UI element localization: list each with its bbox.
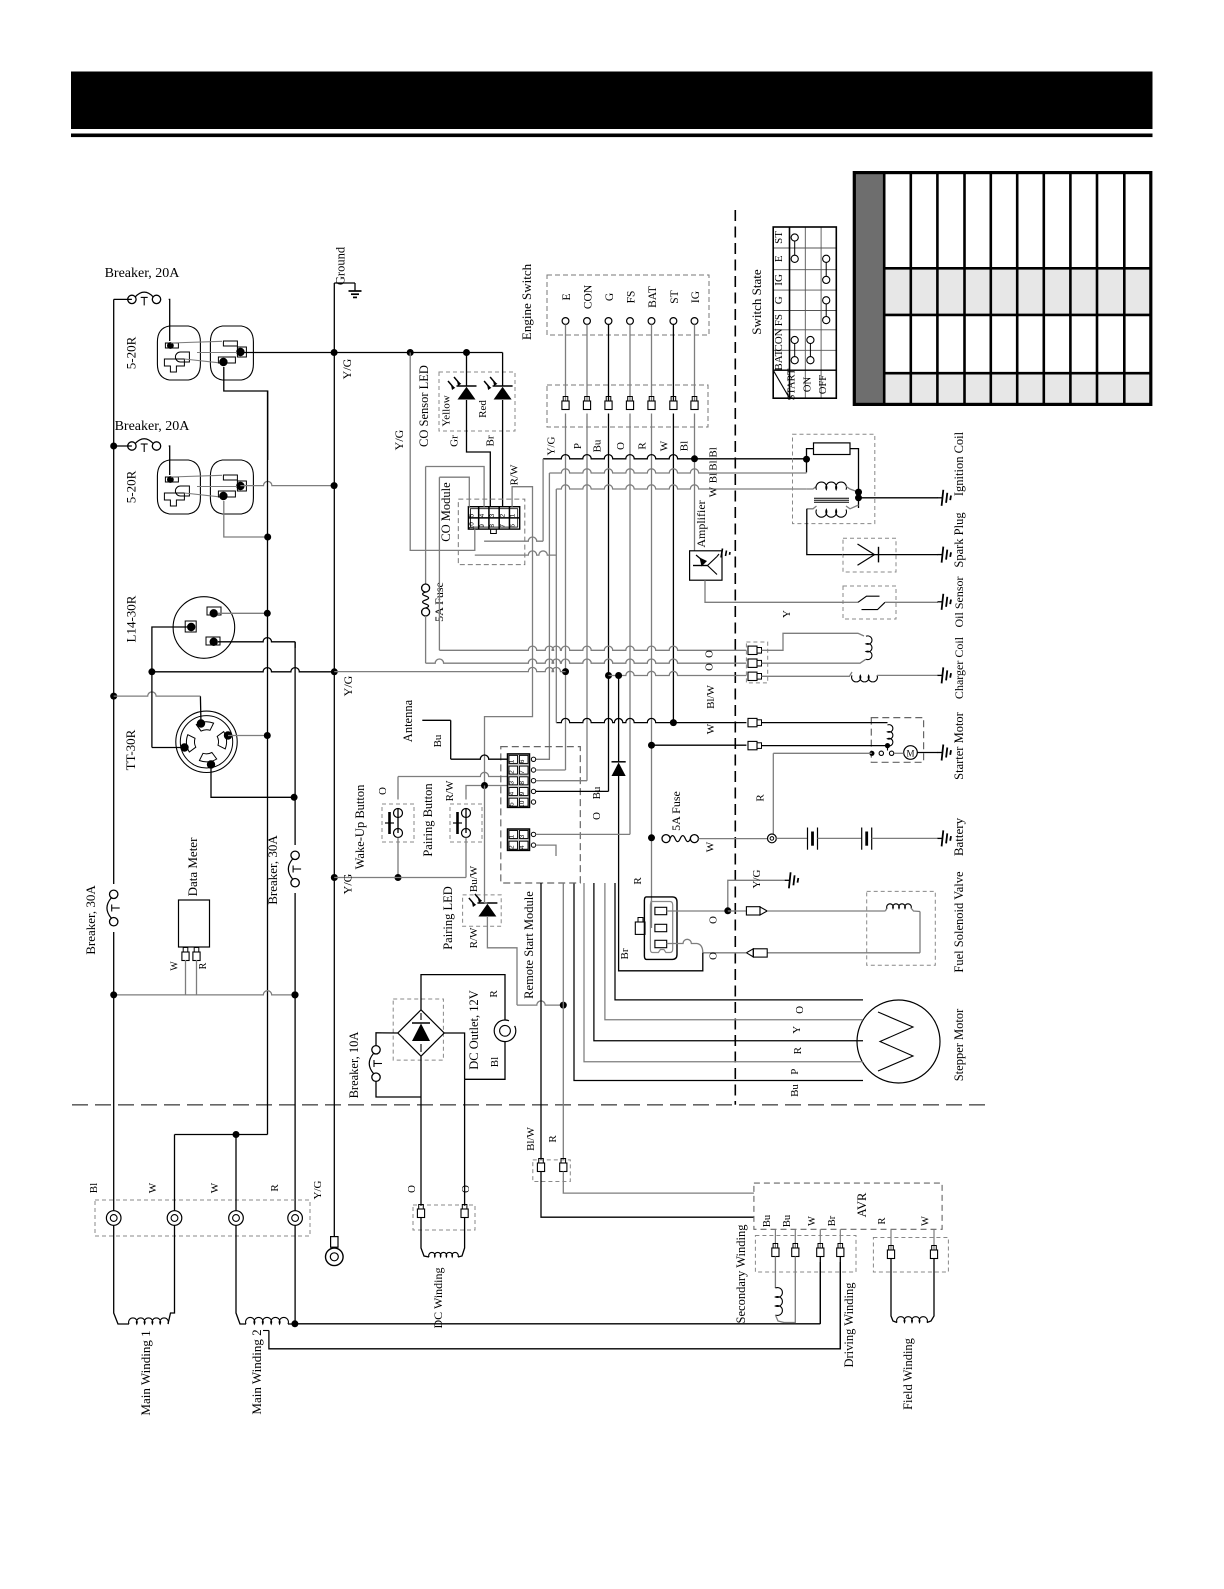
svg-text:5A Fuse: 5A Fuse (669, 791, 683, 831)
remote module connector 2 (508, 829, 530, 850)
wire W terminal2 up (235, 1135, 237, 1212)
receptacle TT-30R (123, 711, 237, 772)
wire rectifier right to DC winding (444, 1033, 464, 1206)
label W starter (705, 723, 717, 734)
wire TT hot to bus (228, 732, 271, 739)
label Switch State (749, 269, 764, 335)
starter relay contacts (869, 746, 893, 756)
label R avr (877, 1217, 888, 1224)
dashed boundary vertical (734, 210, 736, 1105)
svg-text:Amplifier: Amplifier (694, 500, 708, 547)
label Pairing LED (441, 886, 455, 950)
label Y/G ring (312, 1180, 324, 1199)
label P stepper (789, 1069, 801, 1075)
label R battery (755, 794, 767, 802)
svg-text:Bu/W: Bu/W (468, 865, 480, 892)
wire W vertical (672, 414, 674, 723)
label DC Winding (431, 1268, 445, 1329)
wire breaker to rectifier (376, 1033, 398, 1046)
junction R bus at data meter line (292, 991, 299, 998)
svg-text:Bu: Bu (591, 786, 603, 799)
svg-text:W: W (807, 1216, 818, 1226)
breaker CB4 30A (288, 845, 304, 893)
svg-text:Main Winding 1: Main Winding 1 (138, 1330, 153, 1415)
charger connector dashed box (746, 642, 767, 683)
svg-text:5: 5 (469, 513, 476, 517)
wire Br loop (619, 925, 703, 971)
ground (spark plug) (938, 547, 952, 563)
wire battery R to starter relay (773, 753, 872, 834)
rectifier dashed box (393, 999, 443, 1060)
wire O vertical (629, 414, 631, 835)
svg-text:Red: Red (477, 400, 489, 418)
label Bu antenna (432, 734, 444, 747)
wire Y/G to module (536, 769, 566, 771)
wire 5-20R#1 ground to rail (240, 352, 334, 354)
svg-text:Bl: Bl (708, 473, 720, 483)
svg-text:ST: ST (773, 231, 785, 244)
wire Y/G engine ground (728, 880, 786, 911)
svg-text:Driving Winding: Driving Winding (842, 1282, 856, 1368)
ignition core (814, 498, 849, 502)
svg-text:AVR: AVR (855, 1192, 869, 1217)
wire left rail Bl (113, 299, 115, 1211)
wire TT neutral up-left to rail (114, 692, 201, 724)
label W terminal 2 (209, 1182, 221, 1193)
field winding connector box (873, 1238, 948, 1273)
svg-text:O: O (794, 1006, 806, 1014)
module bottom connector pins (537, 1159, 567, 1172)
svg-text:Y/G: Y/G (312, 1180, 324, 1199)
engine switch connector dashed box (547, 385, 708, 427)
wire 5-20R#2 internal links (171, 475, 237, 496)
svg-text:W: W (170, 961, 181, 971)
svg-text:Main Winding 2: Main Winding 2 (249, 1329, 264, 1414)
receptacle 5-20R #1 (duplex) (124, 326, 254, 380)
svg-text:O: O (460, 1185, 472, 1193)
ground (oil sensor) (938, 594, 952, 610)
svg-text:R/W: R/W (444, 780, 456, 801)
battery cell 2 (862, 828, 872, 850)
LED red (CO) (477, 353, 513, 418)
wire MW2 to AVR W pin (295, 1262, 820, 1324)
output terminals Bl W W R (106, 1211, 302, 1226)
wire R/W from CO module (485, 487, 533, 786)
wire secondary Br down (839, 1257, 841, 1349)
label Gr (449, 435, 461, 447)
remote start module dashed box (501, 747, 581, 883)
header underline (71, 134, 1153, 138)
svg-text:Battery: Battery (951, 817, 966, 856)
svg-text:10: 10 (519, 800, 526, 808)
label Engine Switch (519, 263, 534, 340)
wire CO loop 3 (439, 477, 469, 650)
svg-text:2: 2 (499, 513, 506, 517)
svg-text:4: 4 (479, 513, 486, 517)
svg-text:7: 7 (519, 770, 526, 774)
wire wake-up bottom (395, 809, 402, 882)
wires stepper motor bundle (574, 883, 863, 1081)
label W avr (921, 1216, 932, 1226)
svg-text:Bl Bl: Bl Bl (708, 447, 720, 471)
label Antenna (401, 699, 415, 742)
svg-text:R: R (792, 1046, 804, 1054)
wire Bl/W module down (540, 883, 542, 1160)
svg-text:Bu: Bu (762, 1214, 773, 1227)
wire Y/G ground link line (334, 667, 565, 671)
wire Bl/W line to starter (652, 744, 747, 746)
receptacle 5-20R #2 (duplex) (124, 460, 254, 514)
label AVR (855, 1192, 869, 1217)
ignition primary coil (807, 482, 859, 492)
label 5A Fuse (CO) (432, 582, 446, 622)
spark plug symbol (843, 544, 938, 565)
wire W line to starter (556, 718, 746, 722)
fuel solenoid coil (885, 904, 920, 953)
module conn2 pins (531, 832, 535, 847)
wire rectifier bottom / breaker bottom (376, 1056, 421, 1206)
svg-text:W: W (705, 841, 717, 852)
label O charger2 (704, 663, 716, 671)
wire Y/G (engine sw) vertical (565, 414, 567, 771)
label W avr (807, 1216, 818, 1226)
svg-text:L14-30R: L14-30R (124, 595, 139, 642)
wire amplifier emitter to ground (717, 549, 730, 558)
svg-text:Bu: Bu (432, 734, 444, 747)
label Bu/W (468, 865, 480, 892)
svg-text:Y: Y (791, 1026, 803, 1034)
svg-text:W: W (921, 1216, 932, 1226)
svg-text:Data Meter: Data Meter (185, 837, 200, 897)
wire L14 hot1 to bus (218, 610, 271, 617)
ground (charger coil) (938, 667, 952, 683)
LED yellow (CO) (441, 353, 477, 427)
svg-text:Remote Start Module: Remote Start Module (522, 891, 536, 999)
svg-text:BAT: BAT (647, 286, 659, 308)
wake-up button (382, 804, 414, 842)
label W terminal 1 (147, 1182, 159, 1193)
svg-text:Br: Br (485, 435, 497, 446)
svg-text:7: 7 (499, 524, 506, 528)
wire battery middle (818, 837, 862, 839)
label R/W pairing (444, 780, 456, 801)
field winding pins (887, 1229, 937, 1258)
breaker CB3 30A (106, 884, 122, 932)
ignition coil dashed box (793, 434, 875, 523)
label Starter Motor (952, 711, 966, 780)
starter pins (748, 718, 762, 749)
label Bl Bl (708, 447, 720, 471)
diode (remote module) (612, 676, 626, 926)
junction R at Bl/W starter line (648, 742, 655, 749)
svg-text:E: E (773, 255, 785, 262)
wire pairing top (466, 782, 508, 800)
svg-text:Yellow: Yellow (441, 395, 453, 426)
charger pins (748, 646, 762, 680)
svg-text:4: 4 (509, 791, 516, 795)
engine switch connector pins (562, 324, 698, 409)
secondary winding pins (772, 1229, 844, 1256)
junction on W bus (264, 534, 271, 541)
svg-text:5-20R: 5-20R (124, 336, 139, 369)
svg-text:8: 8 (489, 524, 496, 528)
junction L14 neutral (148, 668, 155, 675)
label R fuel (632, 877, 644, 885)
junction 5-20R#2 gnd (331, 482, 338, 489)
wire ignition to ground (859, 497, 939, 499)
wire Bl-Bl line to ignition coil (543, 455, 806, 459)
label Main Winding 1 (138, 1330, 153, 1415)
wire W line to ignition primary (556, 485, 807, 489)
DC outlet jack (494, 1020, 516, 1042)
wire amplifier output to oil sensor (705, 580, 843, 602)
amplifier box (690, 551, 722, 580)
svg-text:O: O (406, 1185, 418, 1193)
junction R at 5A fuse (648, 834, 655, 841)
svg-text:R/W: R/W (468, 927, 480, 948)
wire top Y/G to LEDs (334, 352, 502, 354)
svg-text:3: 3 (519, 834, 526, 838)
wire terminal to battery (776, 837, 807, 839)
wire Y/G rail (331, 283, 338, 1237)
svg-text:10: 10 (469, 522, 476, 530)
engine switch state table (773, 227, 837, 400)
ring terminal Y/G (326, 1237, 344, 1266)
label Ignition Coil (952, 431, 966, 496)
wire CO loop 2 with 5A fuse (422, 467, 485, 664)
label Breaker, 20A (second) (115, 419, 191, 434)
label Bl/W bottom (525, 1126, 537, 1150)
wire module conn2 row2 stub (536, 845, 556, 856)
wire W bus link (175, 1131, 268, 1138)
wire Bl vertical (to amplifier) (694, 414, 696, 551)
junction 5-20R#1 gnd (331, 349, 338, 356)
label Main Winding 2 (249, 1329, 264, 1414)
svg-text:R: R (877, 1217, 888, 1224)
svg-text:Y: Y (781, 610, 793, 618)
CO sensor LED dashed box (439, 372, 515, 431)
breaker CB2 20A (114, 439, 170, 475)
svg-text:3: 3 (509, 781, 516, 785)
svg-text:R: R (637, 442, 649, 450)
data meter box (179, 900, 210, 947)
label Pairing Button (421, 783, 435, 857)
svg-text:Wake-Up Button: Wake-Up Button (353, 784, 367, 869)
svg-text:Bl/W: Bl/W (705, 684, 717, 708)
svg-text:Bl: Bl (489, 1057, 501, 1067)
svg-text:Fuel Solenoid Valve: Fuel Solenoid Valve (952, 871, 966, 973)
wire R module down (562, 883, 564, 1160)
svg-text:Engine Switch: Engine Switch (519, 263, 534, 340)
svg-text:Spark Plug: Spark Plug (952, 512, 966, 568)
wire charger line 1 (439, 646, 746, 650)
label O fuel mid (708, 916, 720, 924)
TT-30R pin slots (180, 719, 232, 768)
starter motor M (894, 746, 938, 760)
junction Bl at BlBl line (691, 455, 698, 462)
label CO Module (439, 482, 453, 542)
svg-text:Y/G: Y/G (751, 869, 763, 888)
label O wake-up (377, 787, 389, 795)
svg-text:Y/G: Y/G (341, 873, 355, 894)
pairing LED dashed box (463, 895, 502, 926)
svg-text:CON: CON (583, 284, 595, 309)
remote module connector 1 (508, 754, 530, 808)
CO module dashed box (458, 499, 525, 564)
svg-text:2: 2 (509, 770, 516, 774)
label Bu diode (591, 786, 603, 799)
svg-text:Br: Br (619, 948, 631, 959)
svg-text:Y/G: Y/G (392, 429, 406, 450)
main winding 2 (236, 1225, 295, 1324)
svg-text:R: R (198, 962, 209, 969)
terminal block dashed box (95, 1200, 310, 1236)
svg-text:ST: ST (669, 290, 681, 303)
svg-text:FS: FS (773, 314, 785, 326)
label Y/G engine (751, 869, 763, 888)
wire R to AVR (563, 1172, 754, 1194)
wire data meter W down (185, 960, 187, 995)
wire starter Bl/W in (762, 745, 888, 747)
svg-text:Field Winding: Field Winding (901, 1337, 915, 1410)
label Breaker, 10A (347, 1032, 361, 1099)
CO module connector block (468, 507, 519, 534)
svg-text:Y/G: Y/G (341, 675, 355, 696)
svg-text:4: 4 (519, 845, 526, 849)
label Y stepper (791, 1026, 803, 1034)
svg-text:8: 8 (519, 781, 526, 785)
wire L2 gray to module conn (536, 473, 550, 759)
label Wake-Up Button (353, 784, 367, 869)
data meter pins W R (170, 948, 210, 971)
svg-text:Breaker, 20A: Breaker, 20A (105, 266, 181, 281)
DC winding (421, 1218, 465, 1258)
svg-text:5: 5 (509, 802, 516, 806)
label O charger1 (704, 650, 716, 658)
svg-text:Oil Sensor: Oil Sensor (952, 576, 966, 627)
svg-text:O: O (704, 650, 716, 658)
svg-text:Pairing LED: Pairing LED (441, 886, 455, 950)
svg-text:1: 1 (509, 834, 516, 838)
AVR dashed box (754, 1183, 942, 1229)
svg-text:TT-30R: TT-30R (123, 729, 138, 770)
svg-text:Switch State: Switch State (749, 269, 764, 335)
inline connector fuel 1 (728, 907, 767, 915)
engine switch terminals E CON G FS BAT ST IG (561, 284, 702, 324)
engine switch dashed box (547, 275, 709, 335)
svg-text:Breaker, 30A: Breaker, 30A (83, 885, 98, 955)
wire Bl second line to ignition coil (549, 469, 806, 473)
amplifier transistor (693, 555, 717, 575)
label Br fuel (619, 948, 631, 959)
svg-text:G: G (773, 296, 785, 304)
svg-text:IG: IG (773, 274, 785, 286)
label O dcw1 (406, 1185, 418, 1193)
wire solenoid return (767, 952, 920, 954)
label Bl (second) (708, 473, 720, 483)
spark plug dashed box (843, 538, 896, 572)
wire antenna to module (451, 755, 508, 759)
svg-text:Antenna: Antenna (401, 699, 415, 742)
wire W bus vertical (267, 391, 269, 1135)
wire TT left pin (152, 672, 185, 748)
label Bl/W starter (705, 684, 717, 708)
wire secondary W down (819, 1257, 821, 1324)
wire Gr LED to module (467, 400, 491, 507)
DC winding pins (417, 1205, 468, 1218)
svg-text:Y/G: Y/G (340, 358, 354, 379)
svg-text:FS: FS (626, 291, 638, 304)
label W battery (705, 841, 717, 852)
svg-text:6: 6 (510, 524, 517, 528)
svg-text:R: R (488, 990, 500, 998)
label O dcw2 (460, 1185, 472, 1193)
wire 5-20R#1 internal links (171, 341, 237, 362)
svg-text:Bl/W: Bl/W (525, 1126, 537, 1150)
junction R at module (560, 1002, 567, 1009)
svg-text:Bu: Bu (789, 1084, 801, 1097)
wire W terminal1 up (174, 1135, 176, 1212)
wire MW2 tap to AVR Br pin (263, 1262, 840, 1349)
DC winding connector dashed box (413, 1205, 475, 1230)
wire Bl/W to AVR (541, 1172, 754, 1218)
junction on left rail at breaker2 (110, 443, 117, 450)
wire Bu branch to charger line3 (609, 671, 747, 679)
wire DC outlet Bl (465, 1042, 505, 1080)
wire R vertical (651, 414, 653, 929)
svg-text:O: O (708, 952, 720, 960)
starter solenoid coil (885, 725, 893, 749)
wire Y/G buttons line (334, 877, 466, 879)
svg-text:W: W (705, 723, 717, 734)
svg-text:E: E (561, 293, 573, 300)
svg-text:W: W (658, 440, 670, 451)
receptacle L14-30R (124, 595, 235, 658)
ground (battery) (938, 830, 952, 846)
svg-text:P: P (789, 1069, 801, 1075)
svg-text:W: W (147, 1182, 159, 1193)
ground (ignition) (938, 490, 952, 506)
svg-text:O: O (377, 787, 389, 795)
wire 5-20R#2 ground to rail (240, 481, 334, 485)
wire L14 hot2 to R bus (218, 638, 295, 648)
label Fuel Solenoid Valve (952, 871, 966, 973)
charger lighting coil (762, 672, 939, 682)
label Oil Sensor (952, 576, 966, 627)
label Battery (951, 817, 966, 856)
5A fuse (battery) (662, 791, 698, 842)
svg-text:R: R (269, 1184, 281, 1192)
wire ignition secondary to spark plug (807, 509, 843, 555)
pairing button (450, 804, 482, 842)
module conn1 pins (531, 757, 535, 804)
ground symbol top (334, 283, 361, 297)
wire 5-20R#2 neutral down to W bus (224, 501, 268, 537)
wire P vertical (586, 414, 588, 781)
junction Y/G at ground line (562, 668, 569, 675)
label R dc (488, 990, 500, 998)
svg-text:P: P (572, 443, 584, 449)
svg-text:R: R (755, 794, 767, 802)
wire TT bottom pin to R bus (211, 765, 298, 801)
ignition secondary coil (807, 505, 859, 517)
field winding coil (891, 1259, 934, 1323)
label Spark Plug (952, 512, 966, 568)
label Bu avr (762, 1214, 773, 1227)
junction Y/G-R/W rail (407, 349, 414, 356)
label Breaker, 20A (top) (105, 266, 181, 281)
wire charger line 2 (426, 659, 747, 663)
